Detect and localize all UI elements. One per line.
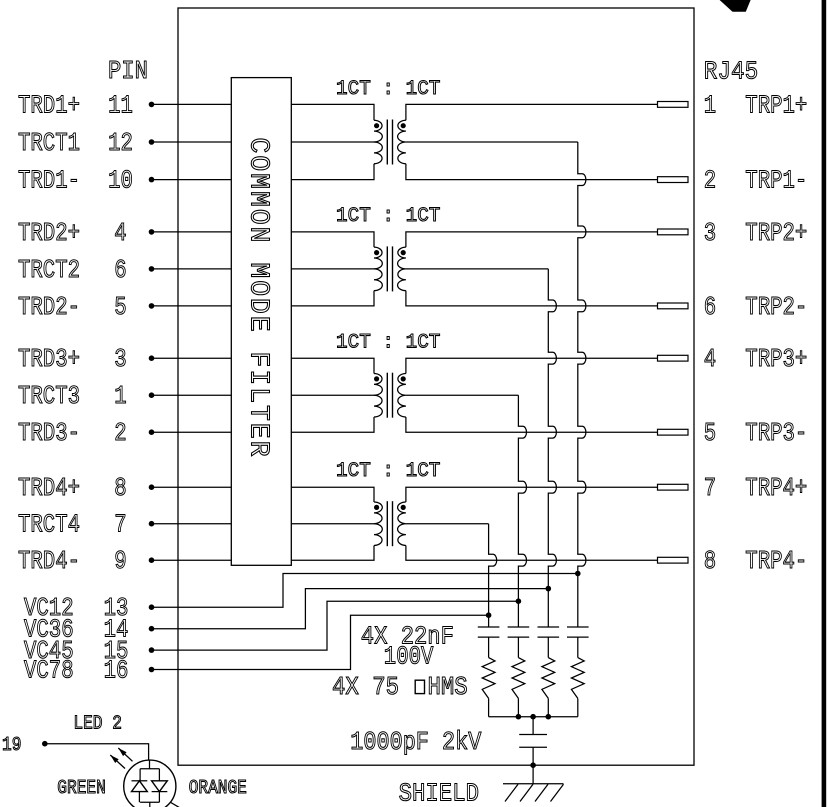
wire TRD1- to common-mode filter [152,179,232,181]
wire secondary bottom lead T2 [406,291,658,306]
common mode filter U1 box [231,78,291,566]
junction VC12 on branch [575,571,581,577]
node TRD4- terminal dot [149,557,155,563]
wire center-tap branch 1 (vertical with hops) [578,142,586,627]
LED emission arrows [118,748,132,761]
transformer T1 core [386,120,388,165]
wire primary leads T4 (left) [291,487,374,502]
node TRD1+ terminal dot [149,102,155,108]
wire common rail [489,716,578,718]
svg-text:TRP3+: TRP3+ [745,344,807,374]
wire to ground [532,765,534,784]
wire center-tap branch 4 (vertical with hops) [489,524,497,627]
RJ45 pin 5 terminal box [658,429,689,435]
wire TRD4+ to common-mode filter [152,486,232,488]
wire TRD3- to common-mode filter [152,431,232,433]
svg-text:4: 4 [704,344,716,374]
svg-text:5: 5 [704,418,716,448]
wire VC12 stair to center-tap branch [152,574,578,608]
LED internal bus top [140,760,159,781]
wire primary leads T2 (left) [291,232,374,247]
wire R2 to common rail [517,698,519,716]
capacitor C5 1000pF 2kV [519,734,547,736]
wire secondary top lead T4 [406,487,658,502]
svg-text:9: 9 [114,546,126,576]
ground symbol (shield) [503,783,564,785]
transformer T1 secondary phasing dot [401,123,406,128]
svg-text:12: 12 [108,128,133,158]
svg-text:2: 2 [704,166,716,196]
capacitor C2 22nF [508,626,530,628]
wire pin 19 to LED [45,744,149,761]
border frame: main schematic box [178,8,694,765]
svg-text:1CT : 1CT: 1CT : 1CT [336,331,440,354]
LED orange diode (right, cathode down) [152,781,168,792]
wire primary leads T1 (left) [291,104,374,120]
node VC12 dot [149,604,155,610]
svg-text:8: 8 [114,473,126,503]
wire secondary bottom lead T3 [406,417,658,432]
svg-text:100V: 100V [384,642,434,672]
transformer T4 secondary phasing dot [401,505,406,510]
wire center-tap branch 2 (vertical with hops) [548,269,556,627]
svg-text:LED 2: LED 2 [73,713,122,735]
svg-text:TRD3+: TRD3+ [18,344,80,374]
wire R3 to common rail [547,698,549,716]
svg-text:TRCT1: TRCT1 [18,128,80,158]
logo triangle (top right, cropped) [720,0,751,12]
transformer T2 core [386,246,388,291]
transformer T4 core [386,501,388,546]
junction rail dots [516,714,522,720]
wire TRCT2 to common-mode filter [152,268,232,270]
svg-text:TRP1-: TRP1- [745,166,807,196]
wire secondary center tap T3 [406,394,519,396]
transformer T1 primary winding [374,120,382,164]
RJ45 pin 1 terminal box [658,102,689,108]
wire C1 to R1 [488,637,490,658]
svg-text:TRD3-: TRD3- [18,418,80,448]
RJ45 pin 4 terminal box [658,355,689,361]
transformer T3 core [386,373,388,418]
transformer T3 primary winding [374,373,382,417]
svg-text:11: 11 [108,90,133,120]
svg-text:1: 1 [704,90,716,120]
svg-text:10: 10 [108,166,133,196]
wire VC45 stair to center-tap branch [152,601,519,650]
junction VC45 on branch [516,598,522,604]
wire C5 to shield rail [532,747,534,765]
node VC36 dot [149,626,155,632]
wire secondary top lead T2 [406,232,658,247]
wire center-tap branch 3 (vertical with hops) [518,395,526,627]
svg-text:19: 19 [2,734,21,756]
capacitor C3 22nF [538,626,560,628]
svg-text:3: 3 [704,218,716,248]
svg-text:TRD4-: TRD4- [18,546,80,576]
transformer T4 primary winding [374,502,382,546]
node TRD1- terminal dot [149,177,155,183]
wire secondary bottom lead T4 [406,545,658,560]
svg-text:1CT : 1CT: 1CT : 1CT [336,460,440,483]
svg-text:TRP4-: TRP4- [745,546,807,576]
wire TRD4- to common-mode filter [152,559,232,561]
svg-text:GREEN: GREEN [57,777,106,799]
svg-text:TRP3-: TRP3- [745,418,807,448]
svg-text:HMS: HMS [428,672,468,702]
node TRCT1 terminal dot [149,139,155,145]
resistor R3 75 ohm [542,658,555,699]
node TRD2+ terminal dot [149,229,155,235]
svg-text:4: 4 [114,218,126,248]
wire VC78 stair to center-tap branch [152,615,489,669]
junction VC36 on branch [546,586,552,592]
RJ45 pin 2 terminal box [658,177,689,183]
svg-text:1: 1 [114,381,126,411]
transformer T2 primary winding [374,247,382,291]
svg-text:VC78: VC78 [24,655,74,685]
wire secondary center tap T1 [406,141,578,143]
wire C2 to R2 [517,637,519,658]
svg-text:TRP2-: TRP2- [745,292,807,322]
svg-text:TRD1+: TRD1+ [18,90,80,120]
svg-text:PIN: PIN [108,56,148,86]
wire secondary center tap T2 [406,268,548,270]
sheet edge bar (right) [822,0,827,807]
svg-text:TRD1-: TRD1- [18,166,80,196]
wire R1 to common rail [488,698,490,716]
svg-text:TRD4+: TRD4+ [18,473,80,503]
transformer T4 primary phasing dot [374,505,379,510]
wire C4 to R4 [577,637,579,658]
svg-text:TRCT4: TRCT4 [18,510,80,540]
RJ45 pin 7 terminal box [658,484,689,490]
svg-text:TRD2-: TRD2- [18,292,80,322]
node TRCT2 terminal dot [149,266,155,272]
LED D1 circle [124,760,176,807]
wire secondary top lead T1 [406,104,658,120]
svg-text:7: 7 [114,510,126,540]
svg-text:TRP4+: TRP4+ [745,473,807,503]
node TRD3+ terminal dot [149,355,155,361]
capacitor C1 22nF [478,626,500,628]
svg-text:TRCT2: TRCT2 [18,255,80,285]
transformer T3 primary phasing dot [374,376,379,381]
wire TRD2- to common-mode filter [152,305,232,307]
svg-text:ORANGE: ORANGE [189,777,247,799]
capacitor C4 22nF [567,626,589,628]
wire TRCT3 to common-mode filter [152,394,232,396]
svg-text:RJ45: RJ45 [704,57,758,87]
node TRCT3 terminal dot [149,392,155,398]
svg-text:1000pF 2kV: 1000pF 2kV [350,727,481,757]
svg-text:8: 8 [704,546,716,576]
LED internal bus bottom [139,792,159,807]
svg-text:2: 2 [114,418,126,448]
wire TRD2+ to common-mode filter [152,231,232,233]
wire primary leads T3 (left) [291,358,374,373]
svg-text:COMMON MODE FILTER: COMMON MODE FILTER [244,138,274,459]
RJ45 pin 8 terminal box [658,557,689,563]
RJ45 pin 6 terminal box [658,303,689,309]
svg-text:6: 6 [704,292,716,322]
wire secondary top lead T3 [406,358,658,373]
node TRCT4 terminal dot [149,521,155,527]
svg-text:1CT : 1CT: 1CT : 1CT [336,205,440,228]
svg-text:16: 16 [104,655,129,685]
node TRD3- terminal dot [149,429,155,435]
svg-text:4X 75: 4X 75 [332,672,399,702]
resistor R4 75 ohm [571,658,584,699]
wire VC36 stair to center-tap branch [152,589,549,629]
wire TRD3+ to common-mode filter [152,357,232,359]
RJ45 pin 3 terminal box [658,229,689,235]
transformer T1 secondary winding [398,120,406,164]
node pin 19 dot [42,741,48,747]
wire R4 to common rail [577,698,579,716]
transformer T3 secondary phasing dot [401,376,406,381]
wire rail to C5 [532,717,534,735]
svg-text:1CT : 1CT: 1CT : 1CT [336,78,440,101]
svg-text:TRP1+: TRP1+ [745,90,807,120]
transformer T2 primary phasing dot [374,250,379,255]
svg-text:SHIELD: SHIELD [399,779,479,807]
svg-text:TRD2+: TRD2+ [18,218,80,248]
wire TRCT4 to common-mode filter [152,523,232,525]
wire TRCT1 to common-mode filter [152,141,232,143]
LED green diode (left, cathode up) [132,780,148,782]
transformer T2 secondary phasing dot [401,250,406,255]
resistor R2 75 ohm [512,658,525,699]
svg-text:3: 3 [114,344,126,374]
wire secondary center tap T4 [406,523,489,525]
wire secondary bottom lead T1 [406,164,658,180]
svg-text:6: 6 [114,255,126,285]
svg-text:TRCT3: TRCT3 [18,381,80,411]
junction on box bottom [530,762,536,768]
svg-text:7: 7 [704,473,716,503]
wire C3 to R3 [547,637,549,658]
svg-text:5: 5 [114,292,126,322]
svg-text:TRP2+: TRP2+ [745,218,807,248]
transformer T3 secondary winding [398,373,406,417]
node TRD2- terminal dot [149,303,155,309]
transformer T2 secondary winding [398,247,406,291]
transformer T4 secondary winding [398,502,406,546]
node VC45 dot [149,647,155,653]
node VC78 dot [149,667,155,673]
resistor R1 75 ohm [482,658,495,699]
junction VC78 on branch [486,612,492,618]
wire LED lower-right lead (cropped) [170,802,182,807]
transformer T1 primary phasing dot [374,123,379,128]
wire TRD1+ to common-mode filter [152,103,232,105]
node TRD4+ terminal dot [149,484,155,490]
